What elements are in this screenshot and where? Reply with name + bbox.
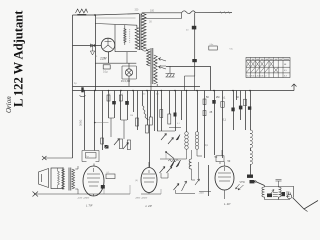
wire R12 to tube [149,125,151,167]
grid box V2 [106,174,115,179]
capacitor C2 blob [192,26,197,30]
svg-text:300Ω: 300Ω [79,120,83,126]
wire y66 [166,66,210,68]
svg-text:12M: 12M [100,57,107,61]
wire varcap stems [161,173,168,178]
wire V1 anode down [108,52,110,63]
wire screen vertical x95 [95,15,97,91]
bus right arrow [292,84,297,91]
wire drop x245 [245,91,247,131]
tube V4 electrodes [218,167,231,181]
svg-text:+85V +250V: +85V +250V [135,198,148,200]
wire drop x222 [222,91,224,159]
wire drop x175 [175,91,177,132]
pot arrow dark 2 [176,160,181,167]
V3 varcap A [160,167,166,174]
svg-text:6,3: 6,3 [284,75,287,77]
wire T2 bottom [151,84,157,91]
wire vertical x194 [194,13,196,76]
capacitor blob V2 [101,185,105,189]
lamp LP1 [125,69,132,76]
V4 left arrow [195,179,200,185]
osc coil L2 [195,132,199,150]
svg-text:+104: +104 [199,193,205,195]
resistor R6 [119,139,122,149]
wire choke link [250,148,252,151]
capacitor C13 plates [273,193,278,197]
tube V3 electrodes [143,170,155,182]
capacitor C9b blob [239,106,243,110]
wire grid V1 [73,45,102,47]
wire drop x114 [114,91,116,119]
wire second top [142,13,182,19]
fuse wavy [182,11,196,14]
wire R3 [160,65,166,67]
svg-text:4V 0,3W: 4V 0,3W [121,80,131,83]
table slashes [246,61,277,72]
grid box bottom [115,51,137,53]
wire drop x214 [214,91,216,156]
svg-text:0,1μ: 0,1μ [103,71,108,74]
wire cathode bus [34,193,130,195]
wire T3 bottom [62,189,78,194]
choke CH3 [262,187,265,197]
lamp bracket [122,66,136,79]
T2 arrow 1 [159,58,167,61]
bus junction dots [83,90,251,92]
tube V3 [141,168,157,193]
wire drop x121 [120,91,122,121]
resistor R4 [101,138,104,144]
ground arrow below grid [90,46,94,56]
wire drop x241 [240,91,242,121]
capacitor C6 blob [112,101,116,104]
varcap 2 [168,138,174,145]
ground chassis [166,66,175,77]
resistor R15 [244,99,247,105]
choke CH4 [279,187,282,197]
mains cord V [293,198,319,210]
resistor R10 diagonal [142,105,149,120]
tube V2 top cap [93,164,95,167]
varcap 1 [161,134,167,141]
wire drop x102 [102,91,104,151]
wire drop x157 [157,91,159,132]
small zigzag above V3 [168,160,179,163]
resistor R14a [203,99,206,105]
wire drop x151 to tube V3 [150,91,152,118]
capacitor C7 blob [125,101,129,105]
svg-text:L 2P: L 2P [146,204,153,208]
tube V2 electrodes [87,168,100,186]
R2 dashed arrow [129,29,131,43]
output transformer T3 secondary [72,169,75,189]
svg-text:100: 100 [150,10,155,13]
wire drop x169 [169,91,171,115]
wire T2 primary top [145,49,148,51]
switch arrow S3 [182,181,187,191]
wire corner to bus [185,76,195,91]
resistor R17 [160,110,163,118]
resistor R8 [119,95,122,101]
voltage table [246,58,290,78]
transformer T2 core [151,48,153,84]
grid box left [114,25,116,52]
tube V2 stem [93,194,95,196]
pot arrow 1 [114,139,120,146]
wire bottom links [104,152,166,194]
capacitor C3 small [209,46,218,50]
faint link [95,17,136,19]
pot dark arrow [176,135,180,141]
svg-text:1M: 1M [130,115,133,117]
wire choke down [250,165,252,175]
mains input arrow [238,185,244,190]
tube V2 [83,166,104,196]
wire drop x94 to tube [94,91,96,151]
wire x208 [208,165,210,196]
switch S2 [166,152,174,159]
resistor R7 [127,140,130,150]
wire y122 [95,122,109,124]
wire drop x147 [147,91,149,126]
wire drop x161 [161,91,163,132]
svg-text:2M: 2M [216,96,219,99]
wire drop x181 [181,91,183,121]
svg-text:L 1P: L 1P [224,202,231,206]
table header dashes [247,58,289,60]
wire L2 top [197,91,199,132]
capacitor C14 blob [282,192,286,196]
wire coil bottoms [160,149,202,159]
tube V4 top box [216,156,224,162]
wire ch5 down [192,169,196,180]
field coil zigzag [58,171,60,185]
T2 arrow 2 [159,66,167,69]
resistor R9 [136,118,139,126]
plug [287,194,291,198]
cathode arrow x [33,192,39,197]
osc coil L1 [185,132,189,150]
wire drop x154 [154,91,156,132]
grid diode D1 [91,44,95,47]
tube V3 top cap [148,162,150,168]
varcap C [174,184,180,191]
wire V4 top [220,150,225,166]
resistor R13 [168,114,171,124]
output transformer T3 primary [62,169,65,189]
junction node [94,14,96,16]
pot arrow dark 1 [171,160,176,167]
capacitor C10 blob [248,106,251,109]
wire varcap stems2 [176,190,196,194]
wire link y120 [121,120,127,139]
choke CH1 [250,130,253,148]
speaker box [51,168,63,189]
wire drop x233 [233,91,235,131]
grid box top [95,24,137,26]
capacitor C9 blob [231,108,234,112]
bus lower [73,90,295,92]
tube V4 [215,166,234,190]
transformer T1 core [139,14,141,50]
tube V3 stem [141,193,161,195]
svg-text:-1,5V +250V: -1,5V +250V [77,198,90,200]
mains cord tick [304,209,308,212]
wire mid horizontal [142,12,182,14]
wire T1 top [140,13,142,15]
wire top right dashes [220,11,230,14]
wire drop x237b [236,91,238,101]
output transformer T3 core [69,168,71,191]
grid box right [137,25,139,28]
svg-text:(4): (4) [135,180,138,182]
capacitor C11 blob [247,175,253,178]
wire drop x108 [108,91,110,119]
capacitor C2b blob [192,59,197,62]
wire left vertical [72,15,74,158]
capacitor C5 blob [105,145,109,149]
wire L1 top [186,91,188,132]
mains down wire [293,187,295,198]
resistor R2 zigzag [124,29,126,43]
resistor R14c [221,102,224,108]
wire drop x205 [204,91,206,159]
wire drop x133 [133,91,135,113]
wire lamp stem [128,63,130,86]
transformer T2 primary [147,49,150,66]
wire top right [196,12,233,14]
wire x210 down [210,66,212,91]
capacitor C8a blob [212,100,215,104]
wire top horizontal [73,14,140,15]
wire v4 bottom [199,190,225,199]
svg-text:▪4C: ▪4C [230,49,234,51]
switch S1 [256,182,265,186]
wire y158 arrow [42,156,73,160]
wire T3 top [62,166,78,169]
capacitor C12 blob [267,194,272,198]
choke CH2 [250,151,253,165]
tube V1 [101,38,115,52]
resistor R5 [107,95,110,101]
transformer T2 secondary [154,55,157,84]
transformer T1 primary [135,28,139,50]
fuse box [250,180,255,183]
resistor R11 [146,125,149,133]
capacitor C15 blob [174,113,177,117]
wire link y118 [109,118,115,137]
svg-text:L TIF: L TIF [86,204,93,208]
V3 varcap B [167,167,173,174]
speaker cone [39,169,49,188]
transformer T1 secondary [142,13,146,50]
resistor R1 box [103,65,110,69]
wire drop x137 [137,91,139,131]
wire riser x278 [276,180,282,187]
cap arrow [268,190,274,198]
wire drop x84 [84,91,86,151]
bus cap C4 [81,87,83,92]
wire to lamp [95,62,136,64]
wire power bottom [265,197,291,200]
svg-text:0,1 25 4 6,3 2 0,3 4 2: 0,1 25 4 6,3 2 0,3 4 2 [247,75,267,77]
wire v4 left [192,150,199,179]
capacitor C14 plates [286,192,290,196]
svg-text:L 122 W Adjutant: L 122 W Adjutant [12,10,26,107]
wire y127 [169,127,181,129]
resistor R14b [203,111,206,116]
choke CH5 [189,159,191,169]
svg-text:0,5: 0,5 [284,70,287,72]
table crosses [246,61,277,72]
pot arrow 2 [123,143,129,150]
bus upper [73,86,201,88]
V4 right arrow [236,184,240,189]
wire power top [265,186,295,188]
wire drop x142 [142,91,144,106]
wire drop x127 [127,91,129,121]
grid combo box [86,153,97,159]
resistor R12 [149,117,152,125]
wire T1 bottom [142,50,146,52]
wire R2 stems [125,25,127,63]
wire drop x250 [250,91,252,131]
wire link y131 [157,130,175,132]
svg-text:VTW: VTW [240,181,246,184]
antenna [76,9,88,13]
